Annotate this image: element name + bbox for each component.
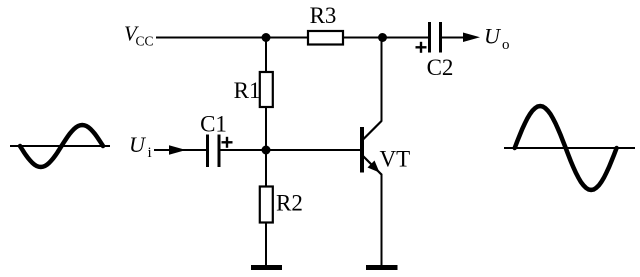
svg-text:U: U bbox=[129, 132, 147, 157]
svg-text:CC: CC bbox=[136, 34, 154, 49]
C1 polarity plus bbox=[222, 141, 233, 143]
wire C2 to output arrow bbox=[441, 37, 467, 39]
input signal sine wave bbox=[20, 125, 103, 167]
resistor R3 bbox=[308, 31, 343, 45]
resistor R2 bbox=[260, 187, 273, 223]
ground (emitter) bbox=[366, 265, 398, 270]
resistor R1 bbox=[260, 72, 273, 107]
svg-text:C2: C2 bbox=[427, 55, 454, 80]
wire node A to R3 bbox=[266, 37, 308, 39]
input arrow bbox=[169, 145, 186, 155]
wire node B to C2 bbox=[383, 37, 430, 39]
node C (base / R1 / R2 junction) bbox=[262, 146, 271, 155]
wire Vcc to node A bbox=[156, 37, 266, 39]
wire input to C1 bbox=[154, 149, 207, 151]
input signal axis bbox=[10, 145, 110, 147]
wire C1 to node C bbox=[219, 149, 266, 151]
wire node C to base bbox=[266, 149, 361, 151]
svg-text:o: o bbox=[502, 37, 510, 53]
wire node A to R1 bbox=[265, 38, 267, 73]
svg-text:R3: R3 bbox=[310, 3, 337, 28]
wire R2 to ground bbox=[265, 223, 267, 266]
svg-text:R2: R2 bbox=[276, 191, 303, 216]
wire R1 to node C bbox=[265, 107, 267, 150]
svg-text:R1: R1 bbox=[234, 78, 261, 103]
output arrow bbox=[463, 33, 480, 43]
svg-text:U: U bbox=[484, 24, 502, 49]
svg-text:i: i bbox=[148, 145, 152, 161]
wire R3 to node B bbox=[343, 37, 383, 39]
transistor VT bbox=[362, 121, 382, 175]
capacitor C1 bbox=[206, 135, 209, 168]
wire node C to R2 bbox=[265, 150, 267, 187]
wire collector to node B bbox=[381, 38, 383, 122]
node A (Vcc / R1 / R3 junction) bbox=[262, 33, 271, 42]
ground (R2) bbox=[251, 265, 282, 270]
wire emitter to ground bbox=[381, 174, 383, 266]
svg-text:C1: C1 bbox=[200, 112, 227, 137]
output signal sine wave bbox=[515, 106, 617, 190]
C2 polarity plus bbox=[416, 46, 427, 48]
output signal axis bbox=[504, 147, 635, 149]
capacitor C2 bbox=[428, 22, 431, 53]
svg-text:VT: VT bbox=[380, 147, 411, 172]
node B (collector / R3 / C2 junction) bbox=[378, 33, 387, 42]
